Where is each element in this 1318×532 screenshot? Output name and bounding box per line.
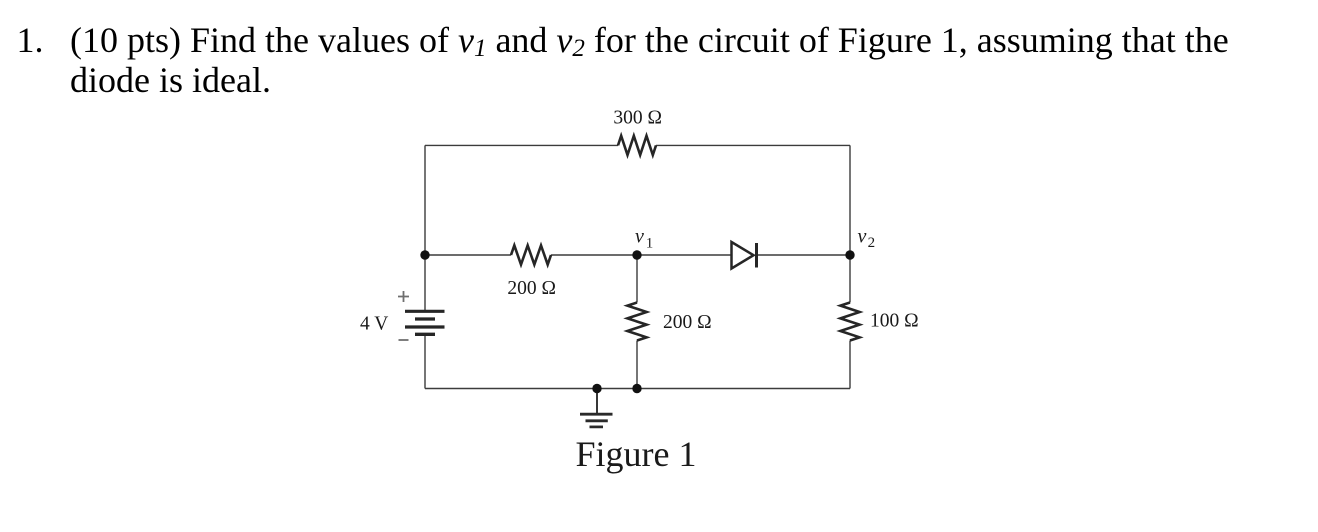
svg-text:300 Ω: 300 Ω bbox=[613, 108, 662, 129]
svg-text:4 V: 4 V bbox=[360, 314, 388, 335]
svg-text:1: 1 bbox=[646, 235, 654, 251]
svg-text:100 Ω: 100 Ω bbox=[870, 311, 919, 332]
svg-text:Figure 1: Figure 1 bbox=[576, 434, 697, 474]
svg-text:200 Ω: 200 Ω bbox=[663, 312, 712, 333]
svg-text:v: v bbox=[858, 225, 867, 247]
svg-text:v: v bbox=[635, 226, 644, 248]
svg-text:200 Ω: 200 Ω bbox=[507, 278, 556, 299]
svg-text:2: 2 bbox=[868, 235, 876, 251]
